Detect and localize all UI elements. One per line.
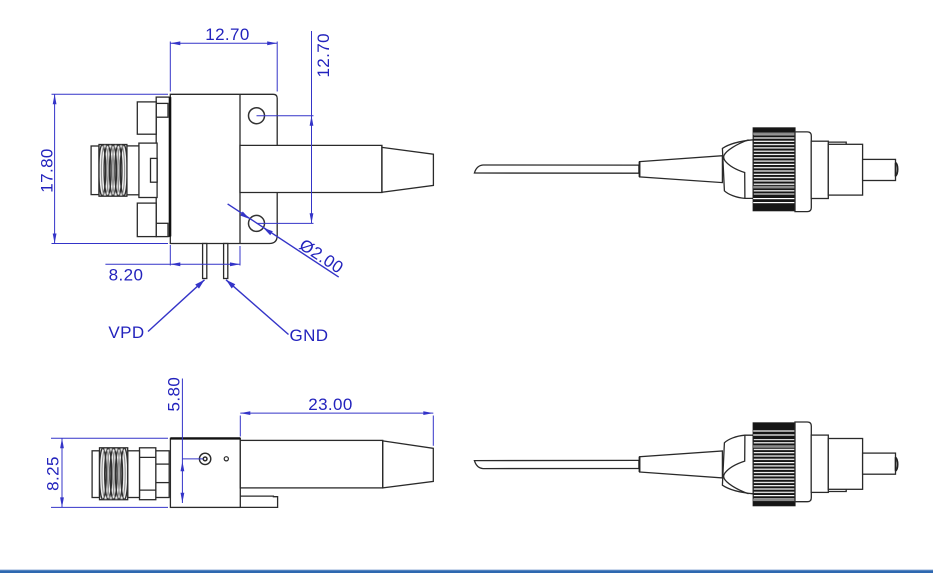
threaded barrel cap [91, 146, 99, 195]
dim 8.25: dimension line [61, 438, 63, 507]
svg-text:8.25: 8.25 [44, 456, 63, 491]
dim 23.00: extension lines [239, 416, 241, 437]
dim 5.80: leader to window [182, 458, 203, 460]
mounting hole bottom [249, 215, 265, 231]
snout taper [382, 147, 434, 192]
photodiode window circle [199, 453, 210, 464]
mounting bracket plate [240, 496, 277, 507]
dim 17.80: extension lines [52, 93, 169, 95]
svg-text:12.70: 12.70 [205, 25, 250, 44]
label VPD leader [148, 280, 205, 332]
boot head [722, 140, 753, 199]
flange boundary line [239, 94, 241, 243]
rear body top tab [829, 142, 847, 144]
footer rule [0, 569, 933, 570]
connector shank [127, 146, 139, 195]
plate right edge thick [169, 97, 172, 236]
middle block notch [151, 158, 158, 182]
connector shank (top view) [128, 451, 140, 498]
bottom clamp tab [137, 203, 156, 237]
svg-text:17.80: 17.80 [38, 148, 57, 193]
svg-text:GND: GND [290, 326, 329, 345]
rear body front section [811, 141, 828, 198]
body top edge thick [170, 437, 240, 439]
plate bottom step [156, 223, 168, 236]
boot head inner curve [724, 140, 749, 199]
dim 8.20: extension lines [169, 245, 171, 266]
top clamp tab [137, 102, 156, 134]
connector middle block [139, 143, 157, 197]
snout taper (top view) [383, 441, 434, 488]
dim 12.70 vertical: leader stubs from holes [257, 115, 314, 117]
photodiode center dot [203, 457, 207, 461]
threaded barrel [99, 145, 128, 197]
crimp end [895, 163, 897, 177]
connector mounting plate [156, 97, 170, 236]
connector flange (top view) [156, 451, 169, 498]
crimp stub [863, 159, 896, 180]
dim 8.25: extension lines [51, 437, 168, 439]
svg-text:23.00: 23.00 [308, 395, 353, 414]
pin VPD [203, 244, 207, 279]
FC connector (bottom-right, mirrored copy) [474, 422, 897, 506]
connector nut (top view) [140, 448, 156, 500]
snout (fiber ferrule tube, side view) [240, 145, 382, 192]
pin GND [224, 244, 228, 279]
threaded barrel cap (top view) [92, 451, 99, 498]
taper joint line [381, 145, 383, 192]
dim 17.80: dimension line [54, 94, 56, 243]
dim 12.70 horizontal: dimension line [170, 42, 277, 44]
threaded barrel (top view) [99, 448, 128, 500]
fiber cable [474, 165, 639, 173]
module body (top view) [170, 438, 240, 507]
svg-text:5.80: 5.80 [165, 377, 184, 412]
dim diameter 2.00 leader [228, 204, 339, 277]
plate top step [156, 103, 168, 117]
label GND leader [226, 280, 289, 335]
svg-text:VPD: VPD [108, 323, 144, 342]
snout (top view) [240, 440, 382, 488]
boot taper [640, 156, 723, 183]
taper joint line (top view) [382, 440, 384, 488]
svg-text:8.20: 8.20 [109, 266, 144, 285]
dim 12.70 vertical: dimension line [311, 31, 313, 223]
collar behind ring [795, 132, 811, 212]
small pin hole [224, 457, 228, 461]
dim 8.20: dimension line [105, 263, 240, 265]
dim 23.00: dimension line [240, 412, 433, 414]
module body (side view) [170, 94, 277, 243]
svg-text:12.70: 12.70 [314, 33, 333, 78]
mounting hole top [249, 108, 265, 124]
dim 5.80: dimension line [181, 379, 183, 504]
rear body main section [828, 144, 862, 195]
dim 12.70 horizontal: extension lines [169, 42, 171, 92]
knurled coupling ring [753, 128, 795, 211]
